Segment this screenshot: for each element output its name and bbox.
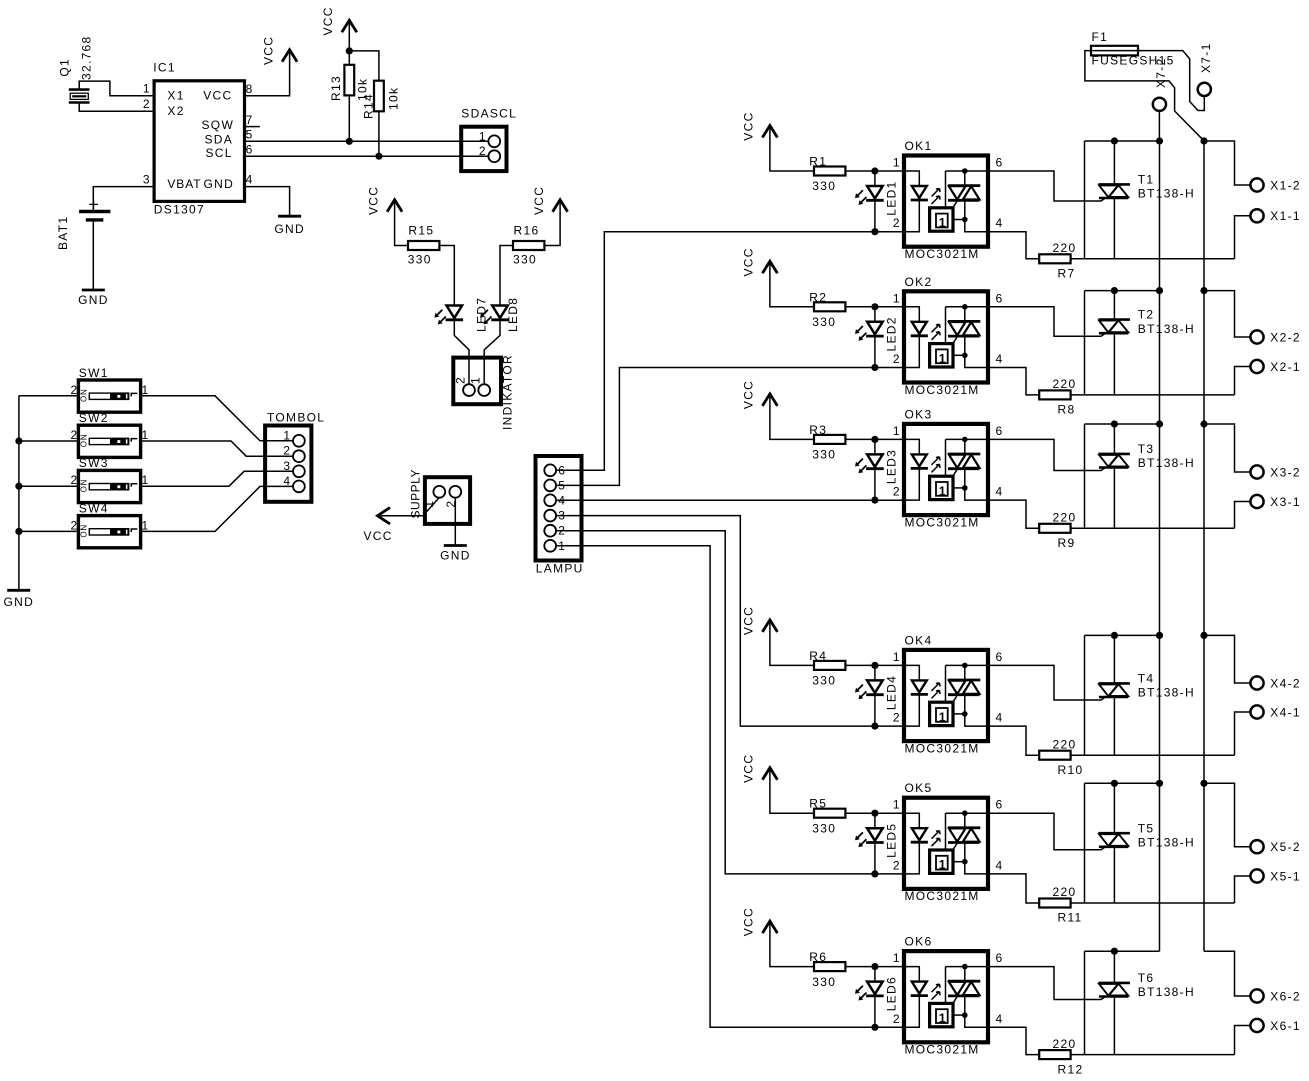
svg-text:R1: R1	[809, 155, 827, 169]
svg-text:X7-2: X7-2	[1154, 57, 1168, 88]
svg-text:MOC3021M: MOC3021M	[905, 741, 980, 755]
svg-text:X5-1: X5-1	[1270, 869, 1301, 883]
svg-text:1: 1	[893, 156, 900, 170]
svg-text:2: 2	[71, 428, 78, 442]
svg-text:R6: R6	[809, 950, 827, 964]
svg-text:X1-2: X1-2	[1270, 178, 1301, 192]
svg-text:2: 2	[71, 473, 78, 487]
svg-text:MOC3021M: MOC3021M	[905, 889, 980, 903]
svg-text:3: 3	[143, 172, 150, 186]
svg-text:ON: ON	[80, 388, 89, 402]
svg-text:330: 330	[812, 975, 836, 989]
svg-text:6: 6	[996, 156, 1003, 170]
svg-text:X7-1: X7-1	[1199, 42, 1213, 73]
svg-text:TOMBOL: TOMBOL	[267, 411, 325, 425]
svg-text:VCC: VCC	[742, 754, 756, 783]
svg-text:ON: ON	[80, 434, 89, 448]
svg-text:R14: R14	[362, 93, 376, 119]
svg-text:X1: X1	[167, 89, 184, 103]
svg-text:1: 1	[893, 291, 900, 305]
svg-text:MOC3021M: MOC3021M	[905, 247, 980, 261]
svg-text:X2-1: X2-1	[1270, 360, 1301, 374]
svg-text:VCC: VCC	[742, 606, 756, 635]
svg-text:4: 4	[996, 485, 1003, 499]
svg-text:T4: T4	[1138, 672, 1155, 686]
svg-text:BT138-H: BT138-H	[1138, 836, 1195, 850]
svg-text:4: 4	[996, 1012, 1003, 1026]
svg-text:X6-1: X6-1	[1270, 1019, 1301, 1033]
svg-text:220: 220	[1053, 511, 1077, 525]
svg-text:F1: F1	[1092, 30, 1109, 44]
svg-text:R7: R7	[1058, 267, 1076, 281]
svg-text:6: 6	[996, 951, 1003, 965]
svg-text:6: 6	[996, 424, 1003, 438]
svg-text:6: 6	[246, 142, 253, 156]
svg-text:1: 1	[939, 216, 946, 230]
svg-text:SW2: SW2	[79, 411, 109, 425]
svg-text:1: 1	[893, 951, 900, 965]
svg-text:LED5: LED5	[885, 823, 899, 858]
svg-text:IC1: IC1	[153, 61, 176, 75]
svg-text:DS1307: DS1307	[154, 202, 205, 216]
svg-text:VCC: VCC	[366, 186, 380, 215]
svg-text:2: 2	[71, 383, 78, 397]
svg-text:Q1: Q1	[58, 58, 72, 77]
svg-text:VCC: VCC	[321, 6, 335, 35]
svg-text:330: 330	[812, 448, 836, 462]
svg-text:SW3: SW3	[79, 456, 109, 470]
svg-text:X2: X2	[167, 104, 184, 118]
svg-text:R3: R3	[809, 423, 827, 437]
svg-text:R9: R9	[1058, 536, 1076, 550]
svg-text:BT138-H: BT138-H	[1138, 686, 1195, 700]
svg-text:R12: R12	[1058, 1062, 1084, 1076]
svg-text:T1: T1	[1138, 173, 1155, 187]
svg-text:OK1: OK1	[905, 139, 933, 153]
svg-text:2: 2	[893, 858, 900, 872]
svg-text:ON: ON	[80, 524, 89, 538]
svg-text:R15: R15	[408, 223, 434, 237]
svg-text:LED3: LED3	[885, 449, 899, 484]
svg-text:5: 5	[246, 128, 253, 142]
svg-text:10k: 10k	[387, 87, 401, 110]
svg-text:BT138-H: BT138-H	[1138, 456, 1195, 470]
svg-text:OK6: OK6	[905, 935, 933, 949]
svg-text:R5: R5	[809, 797, 827, 811]
svg-text:GND: GND	[4, 595, 35, 609]
svg-text:MOC3021M: MOC3021M	[905, 383, 980, 397]
svg-text:1: 1	[939, 710, 946, 724]
svg-text:2: 2	[893, 352, 900, 366]
svg-text:ON: ON	[80, 479, 89, 493]
svg-text:1: 1	[939, 1012, 946, 1026]
svg-text:OK2: OK2	[905, 275, 933, 289]
svg-text:220: 220	[1053, 241, 1077, 255]
svg-text:1: 1	[142, 428, 149, 442]
svg-text:220: 220	[1053, 377, 1077, 391]
svg-text:VCC: VCC	[742, 907, 756, 936]
svg-text:R16: R16	[514, 223, 540, 237]
svg-text:R2: R2	[809, 290, 827, 304]
svg-text:BT138-H: BT138-H	[1138, 187, 1195, 201]
svg-text:OK3: OK3	[905, 407, 933, 421]
svg-text:GND: GND	[440, 549, 471, 563]
svg-text:330: 330	[812, 821, 836, 835]
svg-text:1: 1	[479, 129, 486, 143]
svg-text:R10: R10	[1058, 763, 1084, 777]
svg-text:R8: R8	[1058, 403, 1076, 417]
svg-text:1: 1	[143, 82, 150, 96]
svg-text:8: 8	[246, 82, 253, 96]
svg-text:6: 6	[996, 291, 1003, 305]
svg-text:2: 2	[143, 97, 150, 111]
svg-text:VBAT: VBAT	[167, 177, 201, 191]
svg-text:X3-1: X3-1	[1270, 495, 1301, 509]
svg-text:OK5: OK5	[905, 781, 933, 795]
svg-text:32.768: 32.768	[80, 35, 94, 80]
svg-text:1: 1	[142, 473, 149, 487]
svg-text:220: 220	[1053, 737, 1077, 751]
svg-text:SW4: SW4	[79, 501, 109, 515]
svg-text:SCL: SCL	[206, 146, 233, 160]
svg-text:1: 1	[893, 424, 900, 438]
svg-text:X6-2: X6-2	[1270, 989, 1301, 1003]
svg-text:LED1: LED1	[885, 180, 899, 215]
svg-text:1: 1	[893, 650, 900, 664]
svg-text:MOC3021M: MOC3021M	[905, 515, 980, 529]
svg-text:2: 2	[71, 518, 78, 532]
svg-text:LAMPU: LAMPU	[536, 562, 584, 576]
svg-text:VCC: VCC	[742, 247, 756, 276]
svg-text:2: 2	[893, 216, 900, 230]
svg-text:GND: GND	[274, 222, 305, 236]
svg-text:2: 2	[454, 377, 468, 384]
svg-text:4: 4	[996, 858, 1003, 872]
svg-text:VCC: VCC	[203, 89, 232, 103]
svg-text:220: 220	[1053, 1037, 1077, 1051]
svg-text:330: 330	[812, 179, 836, 193]
svg-text:GND: GND	[204, 177, 235, 191]
svg-text:7: 7	[246, 113, 253, 127]
svg-text:1: 1	[939, 858, 946, 872]
svg-text:220: 220	[1053, 885, 1077, 899]
svg-text:6: 6	[996, 650, 1003, 664]
svg-text:T5: T5	[1138, 821, 1155, 835]
svg-text:INDIKATOR: INDIKATOR	[501, 354, 515, 430]
svg-text:MOC3021M: MOC3021M	[905, 1043, 980, 1057]
svg-text:VCC: VCC	[261, 36, 275, 65]
svg-text:1: 1	[469, 377, 483, 384]
svg-text:X1-1: X1-1	[1270, 209, 1301, 223]
svg-text:X2-2: X2-2	[1270, 330, 1301, 344]
svg-text:LED6: LED6	[885, 976, 899, 1011]
svg-text:4: 4	[996, 711, 1003, 725]
svg-text:4: 4	[996, 352, 1003, 366]
svg-text:330: 330	[812, 674, 836, 688]
svg-text:330: 330	[812, 315, 836, 329]
svg-text:1: 1	[939, 484, 946, 498]
svg-text:SW1: SW1	[79, 366, 109, 380]
svg-text:SQW: SQW	[202, 118, 235, 132]
svg-text:1: 1	[142, 518, 149, 532]
svg-text:T6: T6	[1138, 971, 1155, 985]
svg-text:SDASCL: SDASCL	[461, 106, 517, 120]
svg-text:GND: GND	[78, 293, 109, 307]
svg-text:1: 1	[939, 352, 946, 366]
svg-text:X3-2: X3-2	[1270, 465, 1301, 479]
svg-text:VCC: VCC	[742, 380, 756, 409]
svg-text:R11: R11	[1058, 911, 1083, 925]
svg-text:X4-2: X4-2	[1270, 676, 1301, 690]
svg-text:4: 4	[996, 216, 1003, 230]
svg-text:VCC: VCC	[364, 529, 393, 543]
svg-text:LED4: LED4	[885, 675, 899, 710]
svg-text:2: 2	[893, 485, 900, 499]
svg-text:BT138-H: BT138-H	[1138, 322, 1195, 336]
svg-text:330: 330	[513, 252, 537, 266]
svg-text:VCC: VCC	[742, 111, 756, 140]
svg-text:R4: R4	[809, 649, 827, 663]
svg-text:LED2: LED2	[885, 316, 899, 351]
svg-text:2: 2	[479, 144, 486, 158]
svg-text:330: 330	[408, 252, 432, 266]
svg-text:R13: R13	[329, 75, 343, 101]
svg-text:1: 1	[142, 383, 149, 397]
svg-text:6: 6	[996, 798, 1003, 812]
svg-text:SDA: SDA	[205, 132, 234, 146]
svg-text:LED8: LED8	[506, 297, 520, 332]
svg-text:T2: T2	[1138, 308, 1155, 322]
svg-text:4: 4	[246, 173, 253, 187]
svg-text:2: 2	[893, 1012, 900, 1026]
svg-text:BAT1: BAT1	[56, 216, 70, 250]
svg-text:X5-2: X5-2	[1270, 840, 1301, 854]
svg-text:T3: T3	[1138, 442, 1155, 456]
svg-text:SUPPLY: SUPPLY	[409, 469, 423, 518]
svg-text:OK4: OK4	[905, 633, 933, 647]
svg-text:VCC: VCC	[532, 186, 546, 215]
svg-text:X4-1: X4-1	[1270, 705, 1301, 719]
svg-text:1: 1	[893, 798, 900, 812]
svg-text:BT138-H: BT138-H	[1138, 985, 1195, 999]
svg-text:2: 2	[893, 711, 900, 725]
